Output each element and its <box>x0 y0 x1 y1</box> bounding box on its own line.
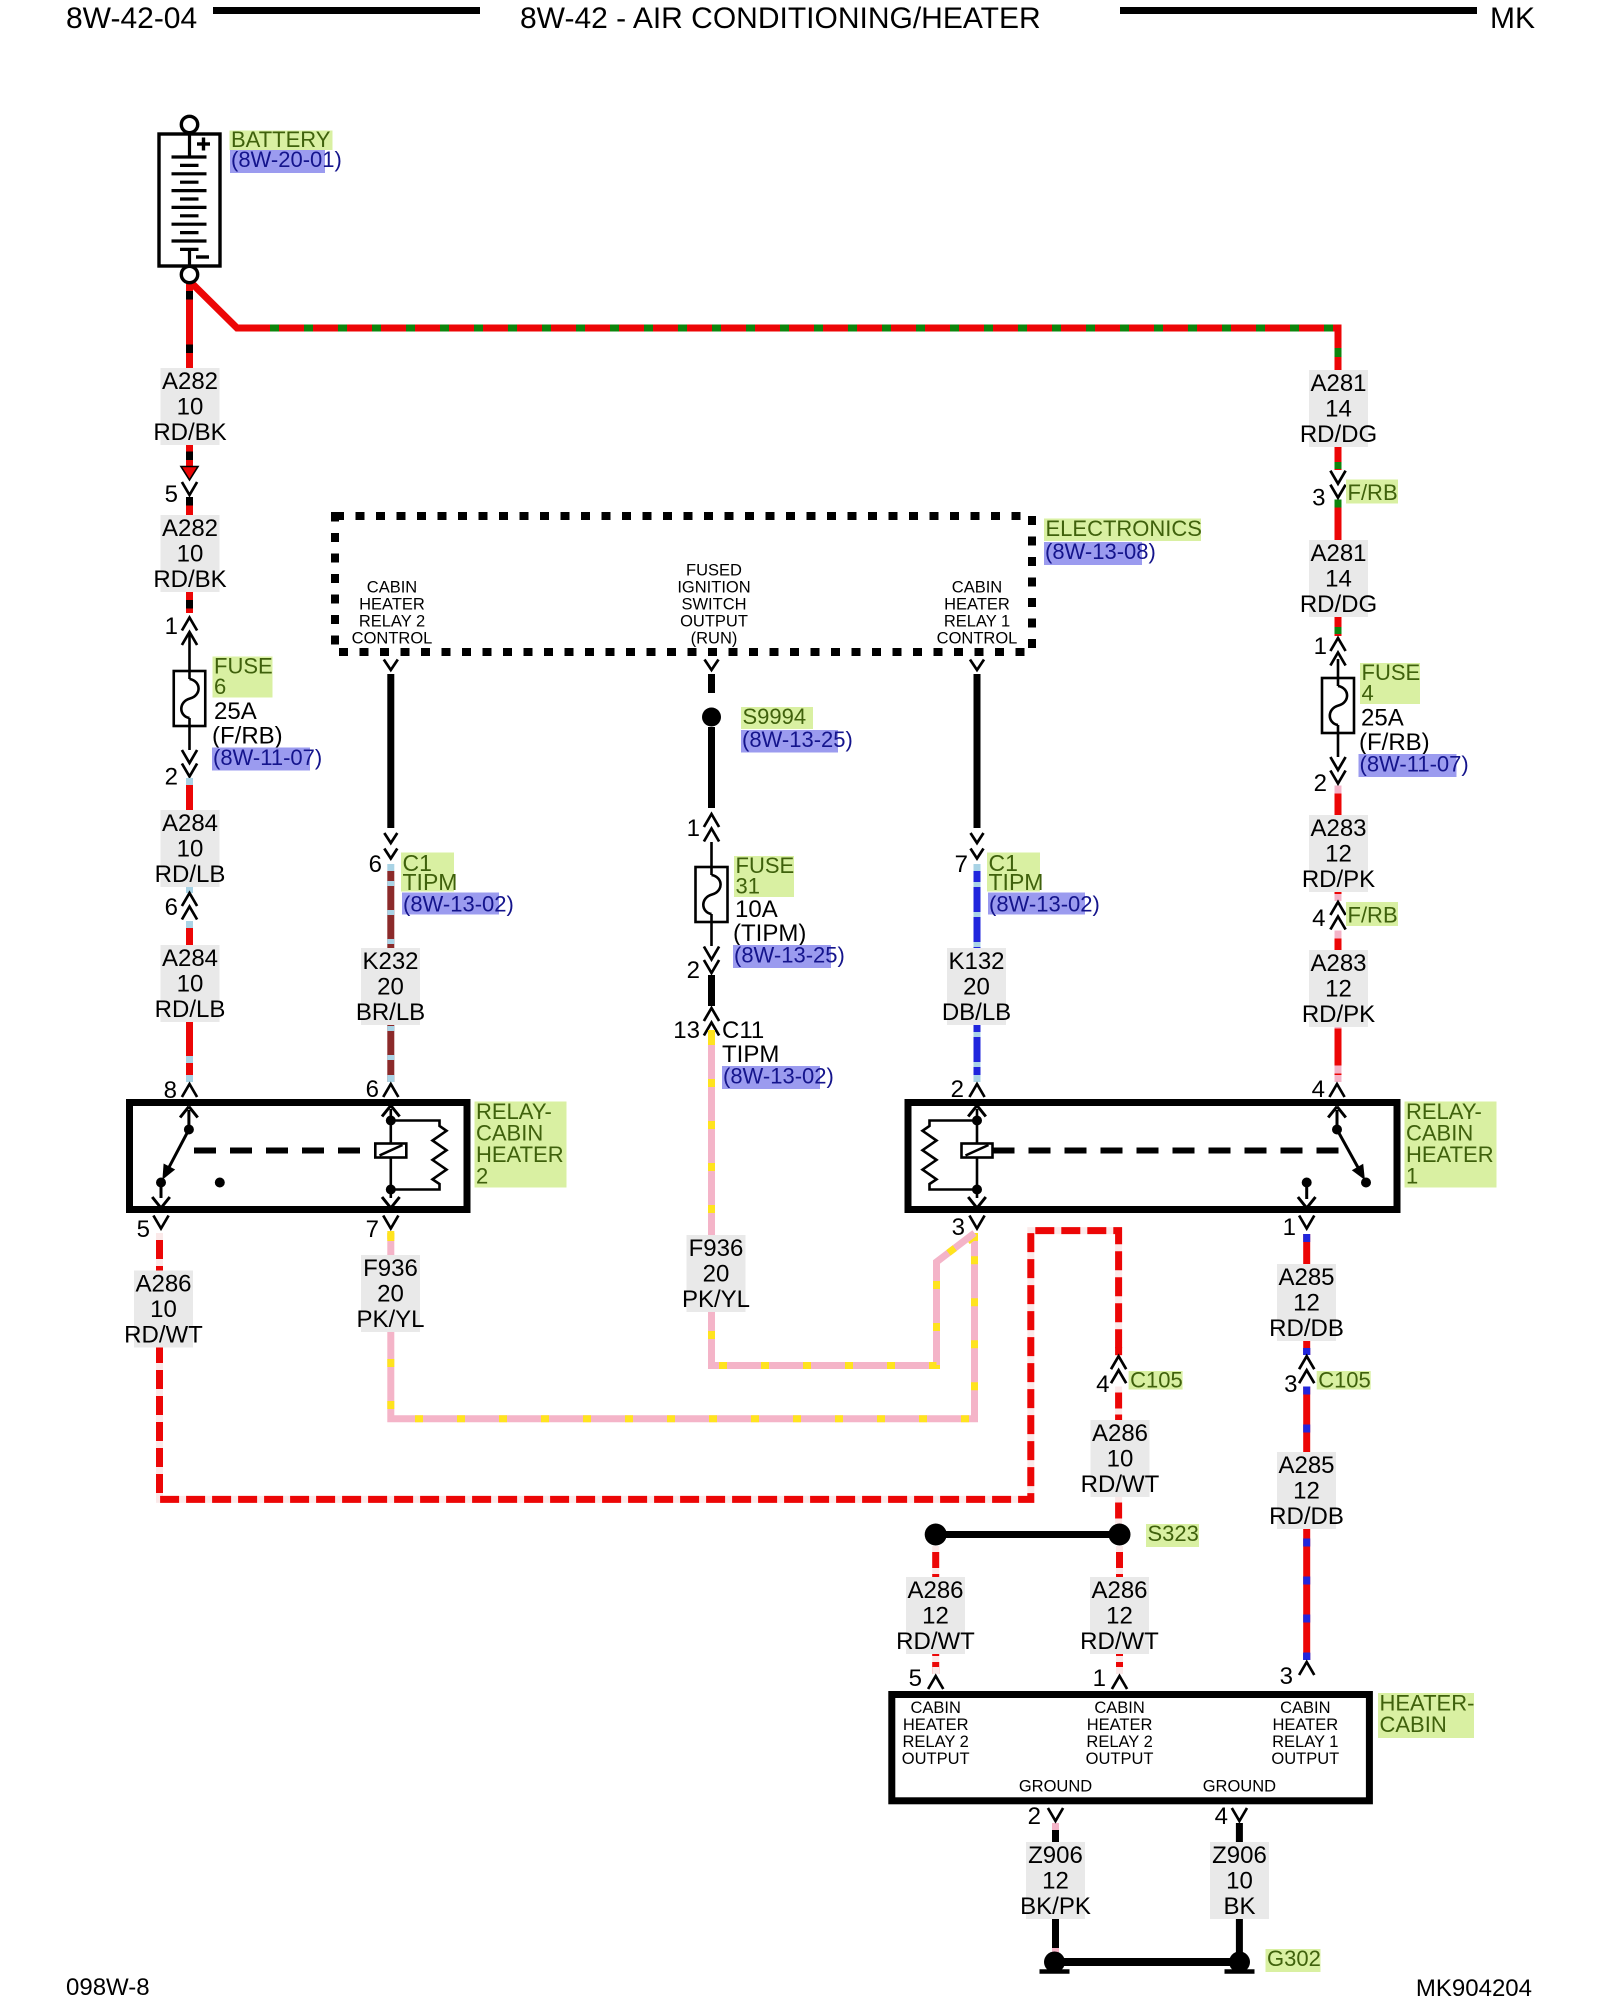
svg-text:RD/DB: RD/DB <box>1269 1503 1344 1530</box>
svg-text:RELAY 2: RELAY 2 <box>1086 1733 1152 1751</box>
svg-text:HEATER: HEATER <box>1087 1716 1153 1734</box>
svg-text:G302: G302 <box>1267 1946 1321 1971</box>
svg-text:K232: K232 <box>362 948 418 975</box>
svg-text:F936: F936 <box>363 1255 418 1282</box>
svg-text:C11: C11 <box>722 1017 764 1044</box>
svg-text:(RUN): (RUN) <box>691 630 738 648</box>
svg-text:HEATER: HEATER <box>359 596 425 614</box>
svg-text:A281: A281 <box>1310 540 1366 567</box>
svg-text:8W-42 - AIR CONDITIONING/HEATE: 8W-42 - AIR CONDITIONING/HEATER <box>520 2 1041 35</box>
svg-text:DB/LB: DB/LB <box>942 999 1011 1026</box>
svg-text:5: 5 <box>137 1216 150 1243</box>
svg-text:13: 13 <box>673 1017 700 1044</box>
svg-text:10A: 10A <box>735 896 778 923</box>
svg-text:GROUND: GROUND <box>1203 1778 1276 1796</box>
svg-text:A282: A282 <box>162 368 218 395</box>
svg-text:MK904204: MK904204 <box>1416 1975 1532 2000</box>
svg-text:F/RB: F/RB <box>1348 903 1398 928</box>
svg-text:CABIN: CABIN <box>367 579 417 597</box>
svg-text:(8W-20-01): (8W-20-01) <box>231 147 342 172</box>
svg-text:2: 2 <box>951 1076 964 1103</box>
svg-text:4: 4 <box>1096 1371 1109 1398</box>
svg-text:HEATER: HEATER <box>1272 1716 1338 1734</box>
svg-text:7: 7 <box>366 1216 379 1243</box>
svg-text:RELAY 2: RELAY 2 <box>359 613 425 631</box>
svg-text:12: 12 <box>1293 1290 1320 1317</box>
svg-text:RD/BK: RD/BK <box>153 566 226 593</box>
svg-text:RD/WT: RD/WT <box>896 1628 975 1655</box>
svg-text:098W-8: 098W-8 <box>66 1974 150 2000</box>
svg-text:4: 4 <box>1312 1076 1325 1103</box>
svg-text:31: 31 <box>736 874 760 899</box>
svg-text:F/RB: F/RB <box>1348 480 1398 505</box>
svg-text:HEATER: HEATER <box>944 596 1010 614</box>
svg-text:CONTROL: CONTROL <box>937 630 1018 648</box>
svg-text:RD/LB: RD/LB <box>155 861 226 888</box>
svg-text:(8W-13-25): (8W-13-25) <box>734 943 845 968</box>
svg-text:6: 6 <box>214 674 226 699</box>
svg-text:10: 10 <box>1107 1446 1134 1473</box>
svg-text:RD/DG: RD/DG <box>1300 591 1377 618</box>
svg-text:10: 10 <box>177 394 204 421</box>
svg-text:BK/PK: BK/PK <box>1020 1893 1091 1920</box>
svg-text:(8W-13-25): (8W-13-25) <box>742 727 853 752</box>
svg-text:1: 1 <box>1093 1665 1106 1692</box>
svg-text:12: 12 <box>1293 1478 1320 1505</box>
svg-text:CABIN: CABIN <box>952 579 1002 597</box>
svg-text:1: 1 <box>1406 1164 1418 1189</box>
svg-text:PK/YL: PK/YL <box>356 1306 424 1333</box>
svg-text:3: 3 <box>1280 1663 1293 1690</box>
svg-text:(8W-11-07): (8W-11-07) <box>1360 752 1469 777</box>
svg-text:(8W-13-02): (8W-13-02) <box>403 892 514 917</box>
svg-text:RD/WT: RD/WT <box>124 1322 203 1349</box>
svg-text:A286: A286 <box>1092 1420 1148 1447</box>
svg-text:S323: S323 <box>1148 1521 1199 1546</box>
svg-text:Z906: Z906 <box>1028 1842 1083 1869</box>
svg-text:10: 10 <box>177 836 204 863</box>
svg-text:6: 6 <box>165 894 178 921</box>
svg-text:8: 8 <box>164 1077 177 1104</box>
svg-text:10: 10 <box>177 971 204 998</box>
svg-text:OUTPUT: OUTPUT <box>1086 1750 1154 1768</box>
svg-text:A285: A285 <box>1278 1264 1334 1291</box>
svg-text:2: 2 <box>1314 770 1327 797</box>
svg-text:(8W-13-02): (8W-13-02) <box>989 892 1100 917</box>
svg-text:3: 3 <box>1284 1371 1297 1398</box>
svg-text:K132: K132 <box>948 948 1004 975</box>
svg-text:10: 10 <box>150 1296 177 1323</box>
svg-text:25A: 25A <box>214 698 257 725</box>
svg-text:4: 4 <box>1215 1803 1228 1830</box>
svg-text:A286: A286 <box>907 1577 963 1604</box>
svg-text:6: 6 <box>366 1076 379 1103</box>
svg-text:RELAY 1: RELAY 1 <box>1272 1733 1338 1751</box>
svg-text:1: 1 <box>1314 633 1327 660</box>
svg-text:HEATER: HEATER <box>903 1716 969 1734</box>
svg-text:C105: C105 <box>1130 1368 1183 1393</box>
svg-text:3: 3 <box>952 1214 965 1241</box>
svg-text:RD/WT: RD/WT <box>1081 1471 1160 1498</box>
svg-text:A286: A286 <box>1091 1577 1147 1604</box>
svg-text:6: 6 <box>369 851 382 878</box>
svg-text:10: 10 <box>1226 1868 1253 1895</box>
svg-text:HEATER: HEATER <box>476 1142 564 1167</box>
svg-text:5: 5 <box>909 1665 922 1692</box>
svg-text:A285: A285 <box>1278 1452 1334 1479</box>
svg-text:A283: A283 <box>1310 815 1366 842</box>
svg-text:4: 4 <box>1362 681 1374 706</box>
svg-text:CABIN: CABIN <box>910 1699 960 1717</box>
svg-text:OUTPUT: OUTPUT <box>1271 1750 1339 1768</box>
svg-text:12: 12 <box>1325 976 1352 1003</box>
svg-text:2: 2 <box>687 957 700 984</box>
svg-text:14: 14 <box>1325 396 1352 423</box>
svg-text:4: 4 <box>1312 905 1325 932</box>
svg-text:Z906: Z906 <box>1212 1842 1267 1869</box>
svg-text:A284: A284 <box>162 945 218 972</box>
svg-text:12: 12 <box>1325 841 1352 868</box>
svg-text:(8W-13-02): (8W-13-02) <box>723 1064 834 1089</box>
svg-text:RD/DB: RD/DB <box>1269 1315 1344 1342</box>
svg-text:GROUND: GROUND <box>1019 1778 1092 1796</box>
svg-text:OUTPUT: OUTPUT <box>902 1750 970 1768</box>
svg-text:IGNITION: IGNITION <box>677 579 750 597</box>
svg-text:A281: A281 <box>1310 370 1366 397</box>
svg-text:FUSED: FUSED <box>686 562 742 580</box>
svg-text:A283: A283 <box>1310 950 1366 977</box>
svg-text:2: 2 <box>476 1164 488 1189</box>
svg-text:BK: BK <box>1223 1893 1255 1920</box>
svg-text:A284: A284 <box>162 810 218 837</box>
svg-text:RD/BK: RD/BK <box>153 419 226 446</box>
svg-text:20: 20 <box>703 1261 730 1288</box>
svg-text:1: 1 <box>165 613 178 640</box>
svg-text:RD/DG: RD/DG <box>1300 421 1377 448</box>
svg-text:RD/PK: RD/PK <box>1302 866 1375 893</box>
svg-text:1: 1 <box>1283 1214 1296 1241</box>
svg-text:20: 20 <box>963 974 990 1001</box>
svg-text:OUTPUT: OUTPUT <box>680 613 748 631</box>
svg-text:7: 7 <box>955 851 968 878</box>
svg-text:12: 12 <box>1106 1603 1133 1630</box>
svg-text:RD/WT: RD/WT <box>1080 1628 1159 1655</box>
svg-text:20: 20 <box>377 974 404 1001</box>
svg-text:8W-42-04: 8W-42-04 <box>66 2 197 35</box>
svg-text:RELAY 1: RELAY 1 <box>944 613 1010 631</box>
svg-text:BR/LB: BR/LB <box>356 999 425 1026</box>
svg-text:S9994: S9994 <box>743 704 807 729</box>
svg-text:1: 1 <box>687 815 700 842</box>
svg-text:A282: A282 <box>162 515 218 542</box>
svg-text:A286: A286 <box>135 1271 191 1298</box>
svg-text:SWITCH: SWITCH <box>681 596 746 614</box>
svg-text:HEATER: HEATER <box>1406 1142 1494 1167</box>
svg-text:MK: MK <box>1490 2 1535 35</box>
svg-text:CABIN: CABIN <box>1280 1699 1330 1717</box>
svg-text:RELAY 2: RELAY 2 <box>903 1733 969 1751</box>
svg-text:3: 3 <box>1312 485 1325 512</box>
svg-text:12: 12 <box>1042 1868 1069 1895</box>
svg-text:RD/LB: RD/LB <box>155 996 226 1023</box>
svg-text:5: 5 <box>165 481 178 508</box>
svg-text:RD/PK: RD/PK <box>1302 1001 1375 1028</box>
svg-text:F936: F936 <box>689 1235 744 1262</box>
svg-text:PK/YL: PK/YL <box>682 1286 750 1313</box>
svg-text:14: 14 <box>1325 566 1352 593</box>
svg-text:12: 12 <box>922 1603 949 1630</box>
svg-text:ELECTRONICS: ELECTRONICS <box>1046 516 1202 541</box>
svg-text:(8W-11-07): (8W-11-07) <box>213 745 322 770</box>
svg-text:10: 10 <box>177 541 204 568</box>
svg-text:20: 20 <box>377 1281 404 1308</box>
svg-text:CONTROL: CONTROL <box>352 630 433 648</box>
svg-text:2: 2 <box>165 764 178 791</box>
svg-text:CABIN: CABIN <box>1094 1699 1144 1717</box>
svg-text:C105: C105 <box>1318 1368 1371 1393</box>
svg-text:(8W-13-08): (8W-13-08) <box>1045 539 1156 564</box>
svg-text:CABIN: CABIN <box>1380 1712 1447 1737</box>
svg-text:25A: 25A <box>1361 705 1404 732</box>
svg-text:2: 2 <box>1028 1803 1041 1830</box>
